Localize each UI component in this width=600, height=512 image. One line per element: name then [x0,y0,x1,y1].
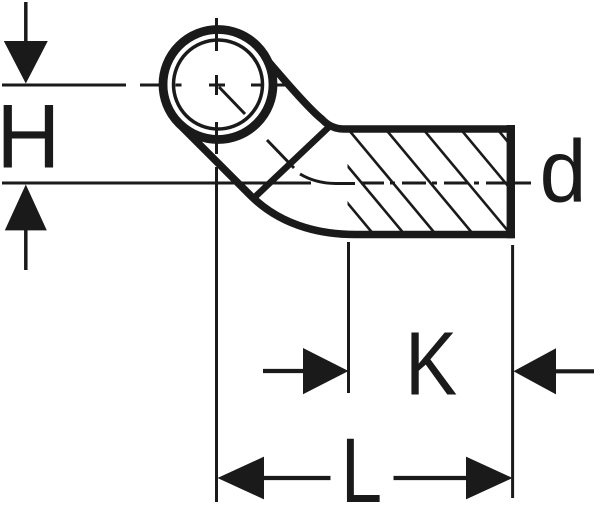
vertical centerline of circle (dash-dot) [215,18,218,154]
hatching of socket cross-section [286,129,594,245]
outer circle (pipe end outer wall) [163,30,273,140]
inner circle (pipe bore) [174,40,263,129]
extension line at socket depth (left end of K) [347,242,350,393]
angled centerline of bend (dash-dot, curves into axis) [219,87,355,184]
extension line bottom of H (socket axis level) [2,182,311,185]
section boundary line at socket mouth [256,125,331,196]
svg-text:L: L [341,420,382,512]
horizontal axis centerline through socket toward label d (dash-dot) [361,182,531,185]
dimension L left arrow (pointing left) [218,457,265,500]
horizontal centerline of circle (dash-dot) [140,84,290,87]
dimension H upper arrow (pointing down) [24,2,28,44]
socket end face (right edge) [507,125,515,238]
extension line at socket end (right end of K and L) [511,245,514,498]
svg-text:K: K [405,313,457,413]
outer contour bottom: socket bottom edge, bend arc, tangent to circle [178,123,514,235]
extension line top of H (inlet center level) [2,84,126,87]
extension line at inlet axis (left end of L) [215,167,218,502]
dimension H lower arrow (pointing up) [5,185,47,231]
dimension L right arrow (pointing right) [394,476,468,480]
outer contour top: tangent from circle, rounded corner, socket top edge [256,47,510,129]
dimension K right arrow (pointing left) [514,348,557,394]
svg-text:H: H [0,86,60,187]
dimension K left arrow (pointing right) [263,369,304,373]
svg-text:d: d [540,123,587,221]
